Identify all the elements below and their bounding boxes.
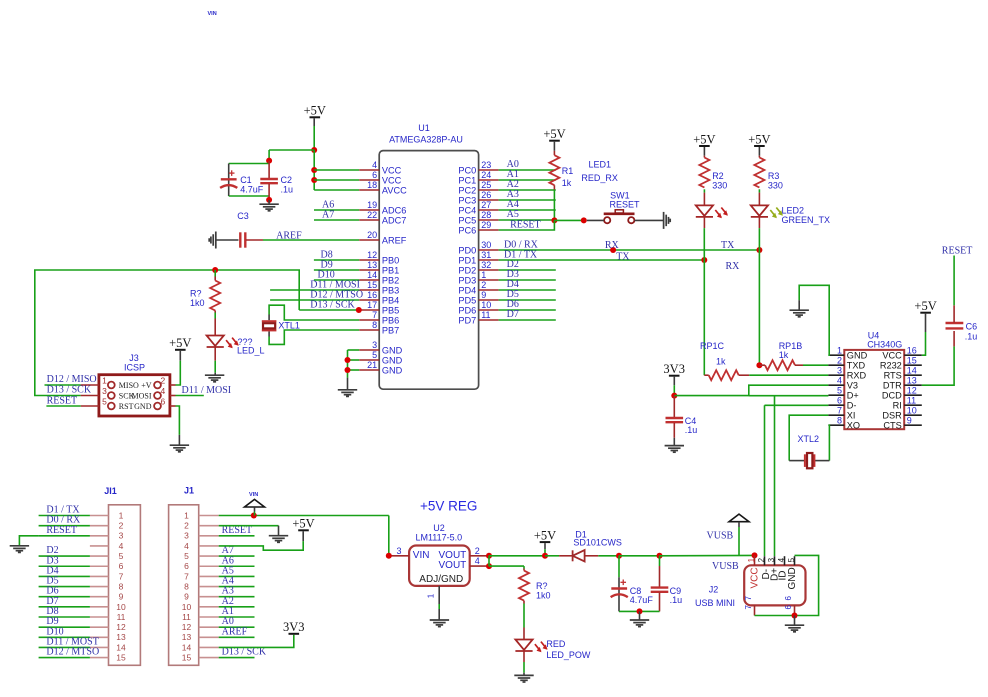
stem: [794, 616, 796, 625]
J3 pin circle: [154, 382, 161, 389]
wire to ground: [268, 200, 270, 204]
pin 13 PB1 lead: [359, 269, 379, 271]
svg-text:24: 24: [481, 170, 491, 180]
svg-text:VCC: VCC: [882, 351, 902, 361]
wire D11/MOSI: [176, 395, 204, 397]
lead R3: [758, 156, 760, 158]
lead LED_POW bottom: [523, 651, 525, 662]
svg-text:15: 15: [367, 280, 377, 290]
pin 14 PB2 lead: [359, 279, 379, 281]
J1 pin 3 lead: [199, 535, 219, 537]
lead R?: [523, 569, 525, 571]
svg-text:XO: XO: [847, 421, 860, 431]
wire R? to LED_POW: [523, 604, 525, 628]
wire C2 to C1 top: [229, 163, 269, 165]
connector J2 USB MINI body: [744, 565, 805, 605]
svg-text:330: 330: [712, 180, 727, 190]
pin 16 PB4 lead: [359, 299, 379, 301]
svg-text:16: 16: [367, 290, 377, 300]
wire net D2: [499, 269, 556, 271]
svg-text:R232: R232: [880, 361, 902, 371]
capacitor C6: [946, 323, 964, 328]
pin 8 PB7 lead: [359, 329, 379, 331]
wire gnd to C3: [216, 239, 239, 241]
ground below C2: [259, 204, 278, 211]
svg-text:PC0: PC0: [458, 165, 476, 175]
svg-text:6: 6: [161, 397, 166, 407]
3V3 supply at U4: [663, 362, 685, 376]
resistor R1 1k: [549, 155, 559, 185]
+5V supply above R2: [693, 132, 715, 146]
wire +5V to J3 pin2: [176, 361, 181, 385]
svg-text:11: 11: [117, 612, 126, 622]
J3 pin 3 lead: [81, 395, 99, 397]
wire net D8: [314, 259, 359, 261]
svg-text:11: 11: [182, 612, 191, 622]
svg-text:PB6: PB6: [382, 315, 399, 325]
svg-text:2: 2: [757, 557, 766, 562]
lead RP1B right: [795, 364, 803, 366]
wire J1 AREF: [219, 636, 255, 638]
pin 5 GND lead: [359, 359, 379, 361]
svg-text:LED_L: LED_L: [237, 345, 265, 355]
junction TX/LED2: [756, 247, 762, 253]
svg-text:+5V: +5V: [292, 517, 314, 531]
svg-text:R2: R2: [712, 171, 724, 181]
svg-text:9: 9: [184, 592, 189, 602]
capacitor C1: [220, 179, 237, 188]
wire XTL2 right: [815, 460, 830, 462]
wire LED2 to RP1B: [758, 228, 760, 365]
wire RESET to PC6: [499, 220, 555, 230]
svg-text:3: 3: [396, 546, 401, 556]
U4 pin 15 R232 lead: [904, 364, 922, 366]
svg-text:16: 16: [907, 345, 917, 355]
resistor R3 330: [754, 158, 764, 188]
wire J3 gnd: [176, 406, 180, 435]
svg-text:10: 10: [481, 300, 491, 310]
wire 3V3 to V3 pin: [674, 385, 828, 395]
wire net D6: [499, 309, 556, 311]
svg-text:PD2: PD2: [458, 265, 476, 275]
junction VIN: [251, 513, 257, 519]
svg-text:25: 25: [481, 180, 491, 190]
svg-text:R1: R1: [562, 166, 574, 176]
svg-text:XI: XI: [847, 411, 856, 421]
JI1 pin 9 lead: [90, 596, 109, 598]
U4 pin 8 XO lead: [828, 424, 844, 426]
svg-text:14: 14: [116, 642, 126, 652]
svg-text:12: 12: [182, 622, 192, 632]
U4 pin 14 RTS lead: [904, 374, 922, 376]
JI1 pin 4 lead: [90, 545, 109, 547]
lead C8: [618, 577, 620, 611]
wire GND pin3: [348, 349, 360, 351]
svg-text:AREF: AREF: [382, 235, 407, 245]
junction +5V rail: [311, 147, 317, 153]
wire to VCC pin 4: [314, 169, 359, 171]
pin 7 PB6 lead: [359, 319, 379, 321]
lead LED_POW top: [523, 628, 525, 640]
svg-text:8: 8: [837, 415, 842, 425]
svg-text:XTL1: XTL1: [278, 320, 300, 330]
connector J3 body: [99, 375, 170, 416]
svg-text:8: 8: [184, 581, 189, 591]
J1 pin 6 lead: [199, 565, 219, 567]
J3 pin circle: [108, 392, 115, 399]
ground below J3: [170, 445, 189, 452]
svg-text:330: 330: [768, 180, 783, 190]
wire J1 gnd row: [219, 525, 279, 527]
J1 pin 15 lead: [199, 657, 219, 659]
ground below LED_POW: [514, 675, 533, 682]
svg-text:RED: RED: [546, 639, 566, 649]
wire C9 top: [659, 556, 661, 566]
VIN supply arrow: [245, 499, 265, 507]
stem: [523, 673, 525, 675]
svg-text:1k0: 1k0: [536, 591, 551, 601]
svg-text:RESET: RESET: [942, 245, 973, 256]
lead LED_L top: [214, 319, 216, 336]
junction SW1: [581, 217, 587, 223]
svg-text:10: 10: [182, 602, 192, 612]
wire LED_L to gnd: [214, 361, 216, 373]
lead RP1C: [704, 374, 708, 376]
wire JI1 D3: [39, 565, 90, 567]
pin 30 PD0 lead: [479, 249, 499, 251]
U4 pin 13 DTR lead: [904, 384, 922, 386]
svg-text:PB0: PB0: [382, 255, 399, 265]
svg-text:PD1: PD1: [458, 255, 476, 265]
wire XTL2 left: [789, 460, 804, 462]
svg-text:RESET: RESET: [610, 199, 641, 209]
JI1 pin 6 lead: [90, 565, 109, 567]
stem: [553, 142, 555, 151]
ground at J1 pin2: [269, 536, 288, 543]
svg-text:5: 5: [119, 551, 124, 561]
svg-text:PC3: PC3: [458, 195, 476, 205]
svg-text:GREEN_TX: GREEN_TX: [782, 215, 831, 225]
U4 pin 1 GND lead: [828, 354, 844, 356]
svg-text:PB3: PB3: [382, 285, 399, 295]
wire net D5: [499, 299, 556, 301]
pin 2 PD4 lead: [479, 289, 499, 291]
wire VIN to U2: [219, 515, 389, 517]
svg-text:.1u: .1u: [670, 595, 683, 605]
svg-text:R?: R?: [536, 581, 548, 591]
wire RP1B to TXD: [803, 364, 828, 366]
J2 top pin lead: [764, 556, 766, 565]
svg-text:4: 4: [161, 386, 166, 396]
svg-text:+5V: +5V: [169, 336, 191, 350]
svg-text:PD0: PD0: [458, 245, 476, 255]
svg-text:R3: R3: [768, 171, 780, 181]
svg-text:3: 3: [184, 531, 189, 541]
svg-text:DSR: DSR: [882, 411, 902, 421]
J1 pin 5 lead: [199, 555, 219, 557]
stem: [178, 435, 180, 445]
J2 pin 6 lead: [794, 605, 796, 615]
wire J2 pin5 gnd loop: [795, 555, 819, 615]
wire VIN down to U2: [388, 516, 390, 556]
svg-text:J1: J1: [184, 486, 194, 496]
junction U2 VIN: [386, 553, 392, 559]
LED LED_POW: [515, 640, 547, 653]
svg-text:10: 10: [116, 602, 126, 612]
lead D1: [559, 555, 573, 557]
wire net D9: [314, 269, 359, 271]
svg-text:+5V: +5V: [304, 104, 326, 118]
wire net A4: [499, 209, 556, 211]
stem: [254, 507, 256, 511]
svg-text:ADJ/GND: ADJ/GND: [419, 574, 463, 585]
wire U4 GND: [799, 285, 829, 355]
wire C3 lead: [246, 239, 263, 241]
JI1 pin 3 lead: [90, 535, 109, 537]
capacitor C2: [260, 179, 278, 183]
svg-text:D1 / TX: D1 / TX: [504, 250, 538, 261]
svg-text:GND: GND: [134, 402, 152, 411]
junction D13/SCK at PB5: [356, 307, 362, 313]
svg-text:A7: A7: [322, 210, 334, 221]
LED LED1: [696, 205, 728, 218]
svg-text:PC1: PC1: [458, 175, 476, 185]
svg-text:GND: GND: [382, 365, 403, 375]
junction VOUT: [486, 553, 492, 559]
svg-text:4.7uF: 4.7uF: [630, 595, 654, 605]
wire: [254, 512, 256, 516]
svg-text:1: 1: [102, 376, 107, 386]
svg-text:MOSI: MOSI: [131, 391, 151, 400]
wire 3V3: [673, 385, 675, 395]
wire D12/MISO: [45, 384, 81, 386]
svg-text:C2: C2: [281, 175, 293, 185]
svg-text:6: 6: [784, 605, 793, 610]
U2 ADJ lead: [438, 586, 440, 604]
svg-text:23: 23: [481, 160, 491, 170]
pin 1 PD3 lead: [479, 279, 499, 281]
J3 pin circle: [154, 403, 161, 410]
svg-text:RXD: RXD: [847, 371, 867, 381]
wire JI1 D11 / MOST: [39, 646, 90, 648]
stem: [758, 147, 760, 156]
svg-text:13: 13: [182, 632, 192, 642]
wire net A0: [499, 169, 556, 171]
svg-text:U1: U1: [418, 123, 430, 133]
J3 pin 2 lead: [170, 384, 176, 386]
JI1 pin 1 lead: [90, 515, 109, 517]
svg-text:14: 14: [182, 642, 192, 652]
pin 11 PD7 lead: [479, 319, 499, 321]
wire JI1 D6: [39, 596, 90, 598]
svg-text:6: 6: [119, 561, 124, 571]
svg-text:18: 18: [367, 180, 377, 190]
svg-text:2: 2: [837, 355, 842, 365]
J2 top pin lead: [774, 556, 776, 565]
wire +5V to junction: [313, 126, 315, 150]
stem: [179, 350, 181, 361]
svg-text:TXD: TXD: [847, 361, 866, 371]
wire C8 top: [618, 556, 620, 577]
svg-text:CH340G: CH340G: [867, 340, 902, 350]
wire SW1 to gnd: [635, 219, 664, 221]
svg-text:D13 / SCK: D13 / SCK: [310, 300, 355, 311]
wire VCC riser: [313, 150, 315, 190]
svg-text:PD3: PD3: [458, 275, 476, 285]
pin 6 VCC lead: [359, 179, 379, 181]
wire net D7: [499, 319, 556, 321]
svg-text:A5: A5: [507, 209, 519, 220]
svg-text:15: 15: [116, 653, 126, 663]
svg-text:VUSB: VUSB: [707, 530, 734, 541]
svg-text:C1: C1: [240, 175, 252, 185]
diode D1: [573, 550, 585, 561]
svg-text:27: 27: [481, 200, 491, 210]
wire JI1 D12 / MTSO: [39, 657, 90, 659]
svg-text:3: 3: [837, 365, 842, 375]
pin 19 ADC6 lead: [359, 209, 379, 211]
lead LED2 top: [758, 193, 760, 206]
wire R? to LED_L: [214, 313, 216, 319]
capacitor C3: [240, 232, 245, 247]
junction VCC pin6: [311, 177, 317, 183]
XTL1 lead top: [268, 315, 270, 321]
wire GND riser: [347, 350, 349, 378]
wire net A2: [499, 189, 556, 191]
svg-text:12: 12: [907, 385, 917, 395]
svg-text:+5V REG: +5V REG: [420, 499, 477, 514]
svg-text:XTL2: XTL2: [798, 434, 820, 444]
svg-text:VCC: VCC: [382, 175, 402, 185]
svg-text:RTS: RTS: [884, 371, 902, 381]
svg-text:VOUT: VOUT: [439, 560, 467, 571]
svg-text:7: 7: [837, 405, 842, 415]
svg-text:DCD: DCD: [882, 391, 902, 401]
svg-text:13: 13: [367, 260, 377, 270]
svg-text:+V: +V: [141, 381, 152, 390]
svg-text:2: 2: [119, 521, 124, 531]
lead RP1C right: [739, 374, 750, 376]
svg-text:13: 13: [907, 375, 917, 385]
wire C2 lead bottom: [268, 184, 270, 200]
svg-text:VIN: VIN: [413, 550, 430, 561]
wire J1 A1: [219, 616, 255, 618]
op-amp U4 CH340G body: [844, 350, 904, 429]
pin 27 PC4 lead: [479, 209, 499, 211]
svg-text:5: 5: [372, 350, 377, 360]
svg-text:4: 4: [119, 541, 124, 551]
svg-text:SD101CWS: SD101CWS: [573, 537, 622, 547]
lead C9: [659, 566, 661, 587]
svg-text:3V3: 3V3: [663, 362, 685, 376]
svg-text:D13 / SCK: D13 / SCK: [47, 385, 92, 396]
J1 pin 9 lead: [199, 596, 219, 598]
wire JI1 RESET row gnd: [19, 536, 38, 546]
wire net A6: [314, 209, 359, 211]
resistor RP1C 1k: [709, 370, 739, 380]
lead R1 bottom: [553, 185, 555, 189]
wire VUSB stem: [738, 527, 740, 555]
wire VOUT to R?: [489, 565, 524, 567]
svg-text:5: 5: [102, 397, 107, 407]
wire net D11/MOSI: [270, 289, 359, 291]
svg-text:9: 9: [119, 592, 124, 602]
+5V supply above R3: [748, 132, 770, 146]
JI1 pin 2 lead: [90, 525, 109, 527]
pin 17 PB5 lead: [359, 309, 379, 311]
capacitor C4: [666, 418, 684, 422]
pin 3 GND lead: [359, 349, 379, 351]
wire cap gnd rail: [619, 610, 660, 612]
svg-text:1k: 1k: [562, 178, 572, 188]
svg-text:LM1117-5.0: LM1117-5.0: [415, 533, 462, 543]
pin 9 PD5 lead: [479, 299, 499, 301]
svg-text:RP1C: RP1C: [700, 341, 725, 351]
svg-text:1: 1: [427, 593, 436, 598]
svg-text:+5V: +5V: [748, 132, 770, 146]
svg-text:29: 29: [481, 220, 491, 230]
svg-text:6: 6: [784, 596, 793, 601]
svg-text:4: 4: [837, 375, 842, 385]
lead R2: [703, 156, 705, 158]
connector JI1 body: [109, 505, 141, 666]
junction GND: [345, 367, 351, 373]
svg-text:DTR: DTR: [883, 381, 902, 391]
wire SW1 left: [587, 219, 604, 221]
stem: [438, 609, 440, 620]
J3 pin circle: [108, 403, 115, 410]
svg-text:8: 8: [372, 320, 377, 330]
ground above U4: [790, 310, 809, 317]
wire C1 lead: [228, 164, 230, 197]
wire +5V rail to C2: [269, 149, 314, 151]
svg-text:3: 3: [119, 531, 124, 541]
pin 29 PC6 lead: [479, 229, 499, 231]
+5V supply at D1: [534, 529, 556, 543]
svg-text:ICSP: ICSP: [124, 362, 145, 372]
3V3 supply at J1: [283, 620, 305, 634]
svg-text:6: 6: [837, 395, 842, 405]
junction C2 bottom: [266, 197, 272, 203]
JI1 pin 10 lead: [90, 606, 109, 608]
wire R1 to node: [553, 190, 555, 221]
svg-text:D-: D-: [847, 401, 857, 411]
svg-text:28: 28: [481, 210, 491, 220]
svg-text:3: 3: [102, 386, 107, 396]
svg-text:1k0: 1k0: [190, 298, 205, 308]
wire net A5: [499, 219, 556, 221]
U4 pin 12 DCD lead: [904, 394, 922, 396]
svg-text:D11 / MOSI: D11 / MOSI: [182, 385, 232, 396]
svg-text:4: 4: [372, 160, 377, 170]
JI1 pin 11 lead: [90, 616, 109, 618]
svg-text:D+: D+: [847, 391, 859, 401]
svg-text:VIN: VIN: [249, 492, 258, 498]
J1 pin 11 lead: [199, 616, 219, 618]
svg-text:22: 22: [367, 210, 377, 220]
svg-text:19: 19: [367, 200, 377, 210]
wire LED_POW to gnd: [523, 662, 525, 673]
wire +5V to VCC pin16: [922, 332, 926, 355]
svg-text:32: 32: [481, 260, 491, 270]
pin 15 PB3 lead: [359, 289, 379, 291]
U4 pin 7 XI lead: [828, 414, 844, 416]
J2 top pin lead: [784, 556, 786, 565]
svg-text:J3: J3: [129, 353, 139, 363]
junction R? top: [212, 267, 218, 273]
lead LED2 bottom: [758, 217, 760, 228]
svg-text:4: 4: [777, 557, 786, 562]
